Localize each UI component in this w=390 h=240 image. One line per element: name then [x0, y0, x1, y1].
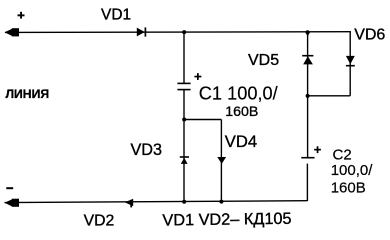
svg-text:100,0/: 100,0/ — [331, 162, 374, 179]
svg-text:VD3: VD3 — [131, 141, 163, 159]
capacitor C1 plus mark — [194, 73, 201, 80]
svg-text:ЛИНИЯ: ЛИНИЯ — [6, 87, 50, 101]
svg-text:VD6: VD6 — [354, 26, 385, 43]
svg-text:VD1: VD1 — [101, 7, 131, 24]
diode VD6 — [346, 56, 355, 66]
arrow left end of top wire — [5, 28, 20, 36]
node junction top of VD5 branch — [305, 30, 311, 36]
wire vertical VD5 branch down to C2 — [307, 32, 309, 158]
svg-text:C2: C2 — [333, 147, 352, 164]
label + (top left) — [18, 12, 25, 19]
wire vertical VD4 branch — [220, 120, 222, 202]
wire horizontal to VD4 branch — [184, 119, 221, 121]
svg-text:VD4: VD4 — [225, 132, 257, 151]
diode VD2 on bottom wire — [125, 199, 133, 208]
svg-text:160В: 160В — [331, 179, 366, 196]
wire vertical VD3 branch — [183, 120, 185, 202]
svg-text:160В: 160В — [225, 104, 258, 120]
capacitor C2 plus mark — [314, 146, 321, 153]
wire vertical C1 bottom to junction — [183, 90, 185, 120]
node junction VD3 bottom — [182, 200, 186, 204]
label - (bottom left) — [6, 187, 13, 189]
diode VD5 — [302, 56, 313, 65]
diode VD3 — [180, 157, 189, 164]
svg-text:VD2: VD2 — [84, 212, 115, 229]
arrow left end of bottom wire — [5, 199, 20, 207]
capacitor C2 — [301, 157, 314, 159]
capacitor C1 — [177, 83, 190, 89]
wire vertical from top wire to C1 — [183, 32, 185, 83]
node junction VD4 bottom — [219, 200, 223, 204]
svg-text:C1 100,0/: C1 100,0/ — [199, 84, 279, 104]
svg-text:VD1 VD2– КД105: VD1 VD2– КД105 — [162, 210, 291, 230]
node junction VD5/VD6 bottom — [306, 94, 310, 98]
diode VD4 — [217, 157, 226, 164]
wire vertical VD6 branch — [349, 32, 351, 96]
wire bottom horizontal (- line) — [5, 201, 308, 203]
wire vertical C2 to bottom wire — [306, 164, 308, 201]
wire horizontal VD5-VD6 bottom link — [308, 95, 351, 97]
node junction below C1 — [182, 118, 186, 122]
node junction top of C1 branch — [182, 30, 186, 34]
svg-text:VD5: VD5 — [248, 52, 279, 69]
wire top horizontal (+ line) — [5, 31, 351, 34]
diode VD1 — [137, 27, 146, 36]
